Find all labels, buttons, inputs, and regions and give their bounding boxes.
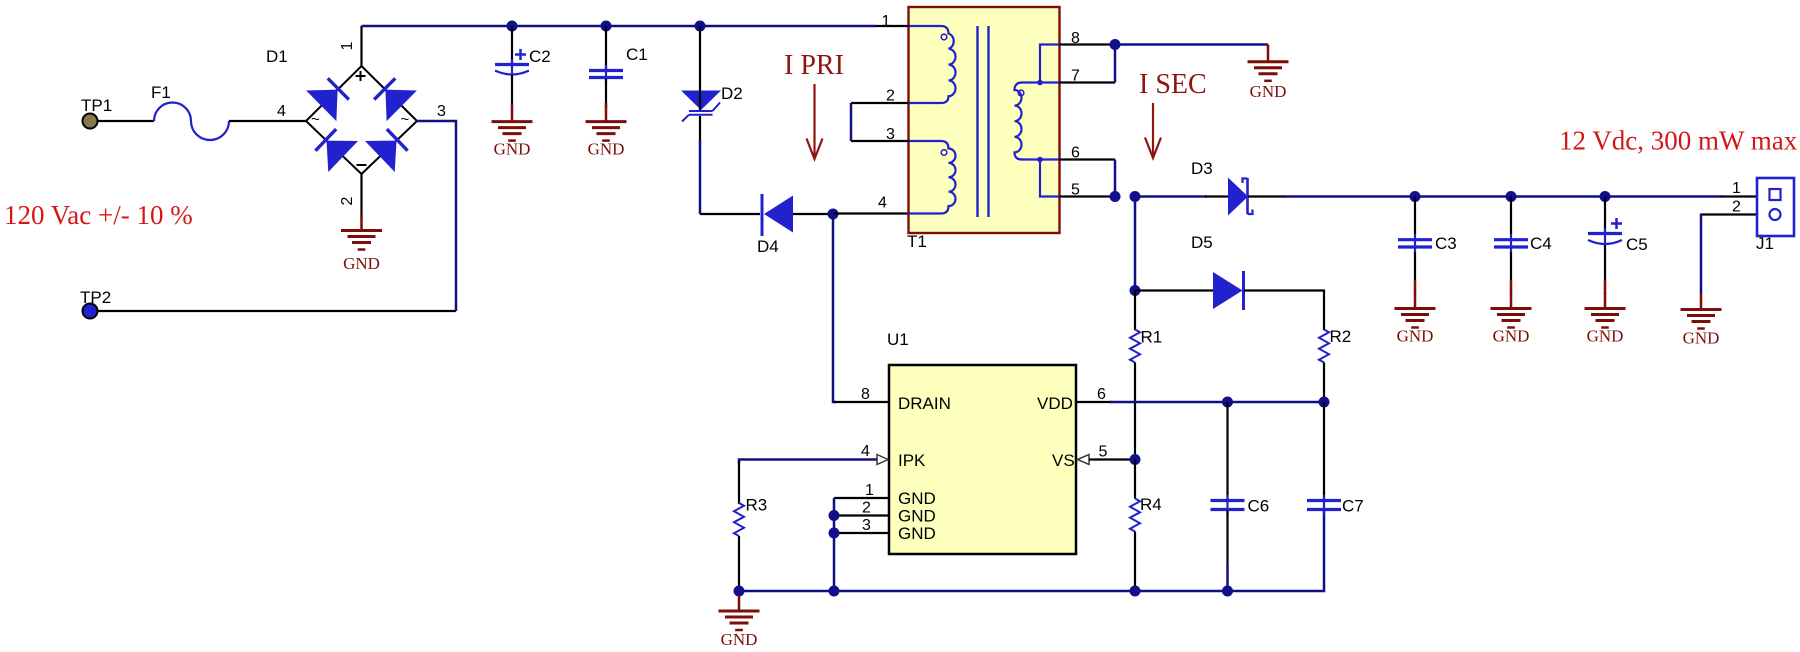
- svg-text:C2: C2: [529, 47, 551, 66]
- wire pin8 to ground: [1115, 43, 1268, 46]
- svg-text:C1: C1: [626, 45, 648, 64]
- capacitor C1: [589, 26, 623, 107]
- svg-text:D3: D3: [1191, 159, 1213, 178]
- svg-text:5: 5: [1099, 444, 1108, 461]
- node junction U1gnd/rail: [829, 586, 840, 597]
- node junction VDD/C7/R2: [1319, 397, 1330, 408]
- node junction C3: [1410, 191, 1421, 202]
- svg-text:D5: D5: [1191, 233, 1213, 252]
- svg-text:2: 2: [886, 88, 895, 105]
- input arrow IPK: [877, 455, 888, 465]
- svg-text:GND: GND: [588, 140, 625, 159]
- svg-text:U1: U1: [887, 330, 909, 349]
- svg-text:5: 5: [1071, 182, 1080, 199]
- svg-text:6: 6: [1097, 386, 1106, 403]
- resistor R1: [1130, 291, 1140, 460]
- fuse F1: [154, 103, 229, 141]
- ground (C4): [1491, 293, 1532, 328]
- svg-text:~: ~: [311, 111, 320, 128]
- wire U1 GND pins: [834, 498, 889, 591]
- svg-text:3: 3: [437, 103, 446, 120]
- resistor R4: [1130, 460, 1140, 592]
- T1 pin5 stub: [1060, 195, 1116, 197]
- input arrow VS: [1078, 455, 1090, 465]
- resistor R2: [1319, 330, 1329, 403]
- svg-text:TP1: TP1: [81, 96, 112, 115]
- node junction D4 out: [828, 209, 839, 220]
- wire shorting T1 pins 6-5: [1114, 160, 1117, 197]
- svg-text:1: 1: [339, 41, 356, 50]
- svg-text:3: 3: [886, 126, 895, 143]
- svg-text:R3: R3: [746, 496, 768, 515]
- ground (C2): [492, 106, 533, 141]
- svg-text:F1: F1: [151, 83, 171, 102]
- svg-text:VDD: VDD: [1037, 394, 1073, 413]
- wire VS stub: [1089, 458, 1135, 460]
- svg-text:C7: C7: [1342, 497, 1364, 516]
- node junction D2: [695, 21, 706, 32]
- svg-text:R1: R1: [1141, 328, 1163, 347]
- capacitor C6: [1211, 402, 1245, 591]
- capacitor C5: [1588, 197, 1622, 295]
- svg-text:GND: GND: [1683, 329, 1720, 348]
- svg-text:R2: R2: [1330, 327, 1352, 346]
- capacitor C4: [1494, 197, 1528, 295]
- wire bridge pin1 up to bus: [360, 26, 362, 66]
- wire secondary node to D3: [1135, 195, 1207, 198]
- svg-text:J1: J1: [1756, 234, 1774, 253]
- svg-text:7: 7: [1071, 68, 1080, 85]
- bridge rectifier D1: [306, 66, 417, 174]
- wire D2 to D4: [700, 213, 760, 215]
- svg-text:T1: T1: [907, 232, 927, 251]
- wire bus to T1 pin1: [876, 25, 909, 27]
- svg-text:120 Vac +/- 10 %: 120 Vac +/- 10 %: [4, 200, 193, 230]
- top bus wire: [362, 25, 877, 28]
- svg-text:VS: VS: [1052, 451, 1075, 470]
- bottom ground rail: [739, 510, 1324, 591]
- svg-text:2: 2: [339, 196, 356, 205]
- diode D4: [762, 194, 828, 236]
- svg-text:GND: GND: [721, 630, 758, 649]
- test point TP2: [83, 304, 98, 319]
- svg-text:DRAIN: DRAIN: [898, 394, 951, 413]
- node junction secondary out: [1130, 191, 1141, 202]
- svg-text:D2: D2: [721, 84, 743, 103]
- ground (J1): [1681, 294, 1722, 329]
- IC U1: [889, 365, 1076, 554]
- node junction VDD/C6: [1222, 397, 1233, 408]
- node junction C6/rail: [1222, 586, 1233, 597]
- wire bridge pin3 down to TP2 net: [417, 121, 456, 311]
- node junction C1: [601, 21, 612, 32]
- node junction R3/rail: [734, 586, 745, 597]
- svg-text:GND: GND: [898, 507, 936, 526]
- ground (bridge D1): [341, 215, 382, 250]
- wire D4 to T1 pin4: [833, 212, 909, 214]
- svg-text:4: 4: [861, 443, 870, 460]
- node junction pin5: [1110, 191, 1121, 202]
- ground (C3): [1395, 293, 1436, 328]
- capacitor C2: [495, 26, 529, 107]
- svg-text:2: 2: [1732, 199, 1741, 216]
- svg-text:I SEC: I SEC: [1139, 69, 1207, 100]
- node junction pin8: [1110, 39, 1121, 50]
- svg-text:~: ~: [401, 111, 410, 128]
- svg-text:R4: R4: [1140, 495, 1162, 514]
- svg-text:C6: C6: [1248, 497, 1270, 516]
- wire D5 to R2: [1244, 291, 1324, 331]
- svg-text:1: 1: [882, 13, 891, 30]
- svg-text:GND: GND: [343, 254, 380, 273]
- svg-text:1: 1: [1732, 180, 1741, 197]
- svg-text:8: 8: [861, 386, 870, 403]
- wire TP2 to bridge pin3: [98, 310, 456, 312]
- schottky diode D3: [1228, 178, 1253, 216]
- node junction C2: [507, 21, 518, 32]
- transformer T1: [909, 7, 1060, 233]
- capacitor C3: [1398, 197, 1432, 295]
- svg-text:GND: GND: [1493, 327, 1530, 346]
- wire F1 to bridge pin 4: [229, 120, 306, 122]
- test point TP1: [83, 114, 98, 129]
- svg-text:1: 1: [865, 482, 874, 499]
- svg-text:GND: GND: [898, 489, 936, 508]
- svg-text:4: 4: [277, 103, 286, 120]
- wire VDD to R2 column: [1076, 401, 1112, 403]
- node junction D5 in: [1130, 285, 1141, 296]
- diode D5: [1213, 271, 1244, 310]
- svg-text:GND: GND: [494, 140, 531, 159]
- capacitor C7: [1307, 402, 1341, 515]
- svg-text:C3: C3: [1435, 234, 1457, 253]
- svg-text:D4: D4: [757, 237, 779, 256]
- svg-text:3: 3: [862, 517, 871, 534]
- svg-text:C5: C5: [1626, 235, 1648, 254]
- ground (secondary top): [1267, 45, 1270, 48]
- T1 pin6 stub: [1060, 158, 1116, 160]
- T1 pin8 stub: [1060, 43, 1116, 45]
- wire J1 pin2 to ground: [1701, 213, 1757, 215]
- wire secondary node down to D5: [1134, 197, 1137, 291]
- T1 pin2 stub: [851, 102, 909, 104]
- ground (bottom rail): [719, 595, 760, 630]
- resistor R3: [734, 503, 744, 591]
- node junction VS: [1130, 454, 1141, 465]
- svg-text:4: 4: [878, 195, 887, 212]
- svg-text:12 Vdc, 300 mW max: 12 Vdc, 300 mW max: [1559, 126, 1798, 156]
- wire shorting T1 pins 2-3: [850, 103, 853, 141]
- wire IPK to R3: [739, 460, 877, 464]
- wire shorting T1 pins 8-7: [1114, 45, 1117, 83]
- wire node to D5: [1135, 289, 1213, 291]
- svg-text:2: 2: [862, 500, 871, 517]
- ground (C5): [1585, 293, 1626, 328]
- connector J1: [1757, 178, 1794, 236]
- node junction GND pin2: [829, 510, 840, 521]
- svg-text:GND: GND: [898, 524, 936, 543]
- node junction GND pin3: [829, 528, 840, 539]
- current arrow I SEC: [1145, 103, 1161, 158]
- svg-text:6: 6: [1071, 145, 1080, 162]
- output rail wire: [1248, 195, 1285, 197]
- svg-text:8: 8: [1071, 30, 1080, 47]
- svg-text:C4: C4: [1530, 234, 1552, 253]
- wire bridge pin2 down: [360, 174, 362, 219]
- svg-text:GND: GND: [1587, 327, 1624, 346]
- svg-text:TP2: TP2: [80, 288, 111, 307]
- svg-text:IPK: IPK: [898, 451, 926, 470]
- T1 pin7 stub: [1060, 81, 1116, 83]
- svg-text:GND: GND: [1250, 82, 1287, 101]
- svg-text:I PRI: I PRI: [784, 50, 844, 81]
- svg-text:GND: GND: [1397, 327, 1434, 346]
- ground (C1): [586, 106, 627, 141]
- node junction C5: [1600, 191, 1611, 202]
- wire TP1 to fuse F1: [98, 120, 154, 122]
- T1 pin3 stub: [851, 140, 909, 142]
- node junction R4/rail: [1130, 586, 1141, 597]
- zener diode D2: [681, 26, 721, 214]
- current arrow I PRI: [807, 84, 823, 159]
- svg-text:D1: D1: [266, 47, 288, 66]
- node junction C4: [1506, 191, 1517, 202]
- wire D4 node down to U1 DRAIN: [833, 214, 836, 402]
